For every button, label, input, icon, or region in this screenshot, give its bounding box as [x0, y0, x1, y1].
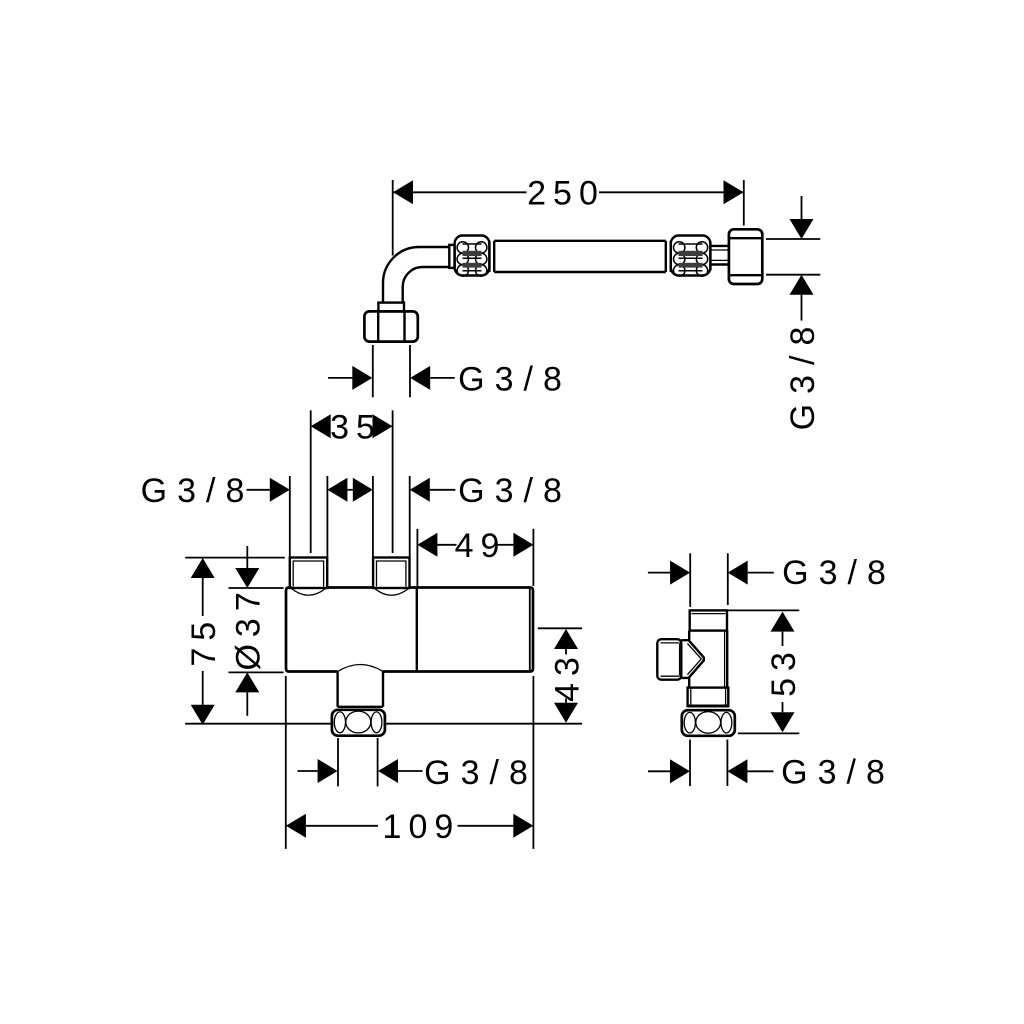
angle valve tube — [689, 631, 727, 688]
angle valve bottom G3/8 label — [648, 740, 895, 792]
dimension 109 — [286, 676, 534, 849]
hose nut left — [364, 311, 417, 341]
dimension 250 — [393, 175, 744, 256]
svg-text:43: 43 — [548, 650, 586, 702]
hose nut G3/8 label — [328, 345, 572, 398]
outlet G3/8 label — [298, 738, 538, 792]
long datum line — [185, 723, 582, 725]
svg-text:G3/8: G3/8 — [458, 360, 572, 398]
valve outlet — [338, 665, 383, 707]
dimension diameter 37 — [229, 546, 284, 716]
valve outlet nut — [332, 710, 385, 736]
dimension 53 — [728, 610, 803, 733]
svg-text:49: 49 — [455, 527, 507, 565]
svg-text:109: 109 — [383, 808, 461, 846]
angle valve top G3/8 label — [648, 553, 896, 607]
valve port left — [290, 558, 327, 596]
valve port right — [373, 558, 409, 596]
hose left step — [449, 245, 454, 268]
svg-text:G3/8: G3/8 — [782, 554, 896, 592]
svg-text:250: 250 — [527, 175, 605, 213]
svg-text:G3/8: G3/8 — [781, 754, 895, 792]
svg-text:75: 75 — [185, 615, 223, 667]
hose left collar — [378, 303, 404, 312]
hose left band — [489, 241, 494, 272]
dimension 49 — [417, 527, 533, 587]
valve body — [286, 588, 533, 672]
svg-text:53: 53 — [765, 645, 803, 697]
dimension 35 — [311, 409, 393, 553]
hose right crimp sleeve — [671, 236, 711, 277]
dimension 43 — [538, 628, 587, 723]
svg-text:G3/8: G3/8 — [424, 754, 538, 792]
hose right shaft — [710, 242, 729, 271]
svg-text:35: 35 — [330, 409, 382, 447]
hose right G3/8 dimension — [766, 196, 822, 430]
angle valve nut — [682, 710, 735, 736]
svg-text:Ø37: Ø37 — [230, 585, 268, 670]
angle valve collar — [688, 688, 729, 707]
svg-text:G3/8: G3/8 — [458, 472, 572, 510]
ports G3/8 labels — [141, 472, 572, 557]
angle valve handle — [657, 639, 681, 680]
dimension 75 — [185, 558, 285, 725]
svg-text:G3/8: G3/8 — [141, 472, 255, 510]
angle valve cap — [690, 610, 727, 630]
hose nut right — [729, 229, 762, 284]
hose bent tube — [383, 247, 449, 303]
hose body — [494, 241, 666, 272]
hose left crimp sleeve — [455, 236, 490, 277]
svg-text:G3/8: G3/8 — [784, 317, 822, 431]
angle valve cone — [681, 640, 704, 678]
hose right band — [666, 241, 671, 272]
